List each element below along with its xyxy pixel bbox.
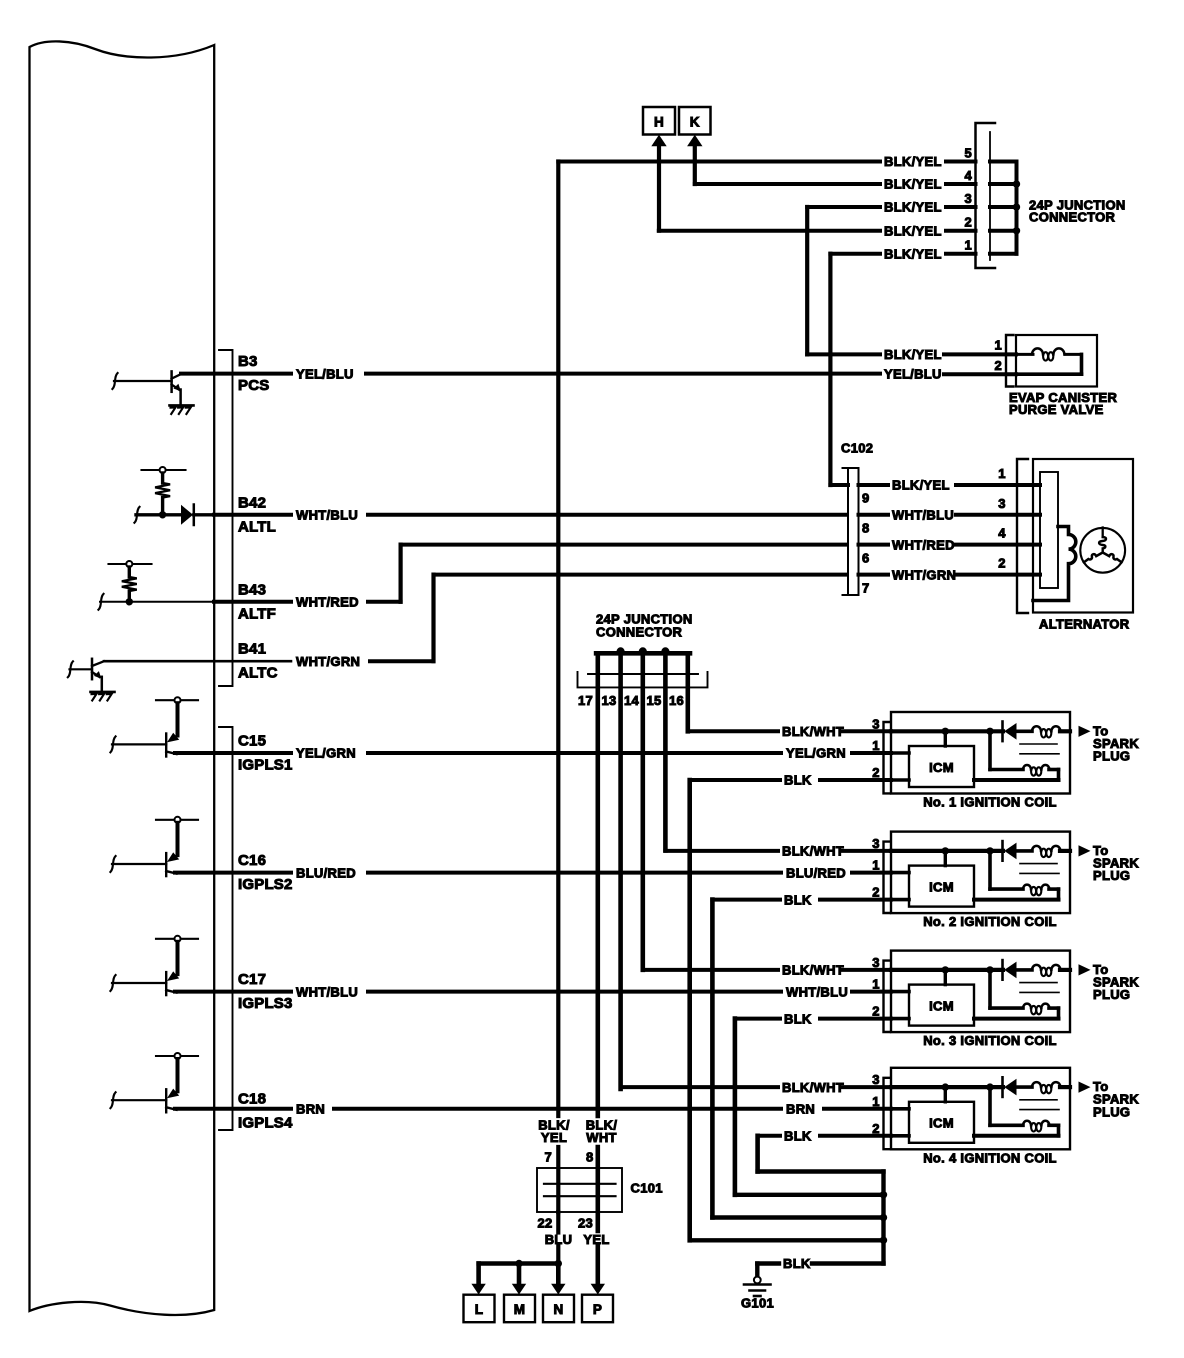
transistor Q5 (IGPLS3 driver, inside ECM) <box>110 971 179 995</box>
wire BLU/RED (C16/IGPLS2 to No.2 coil pin 1) <box>175 865 891 880</box>
terminal box K <box>679 107 711 135</box>
node (coil 2 rail dots) <box>942 847 994 854</box>
wire (rail dot to secondary) <box>990 851 1023 889</box>
connector bracket (EVAP) <box>1006 335 1014 387</box>
pin C15 (IGPLS1) label <box>238 733 293 774</box>
svg-text:ICM: ICM <box>929 1116 954 1131</box>
svg-text:BLK: BLK <box>784 892 812 907</box>
inductor (coil 3 secondary winding) <box>1023 1004 1049 1015</box>
wire (R2 to B43 line) <box>128 591 131 602</box>
svg-text:BLK/YEL: BLK/YEL <box>884 223 942 238</box>
svg-text:PLUG: PLUG <box>1093 987 1130 1002</box>
pin B3 (PCS) label <box>238 353 269 394</box>
wire BLK/YEL (24P junction pin 5) <box>558 146 1016 170</box>
wire WHT/GRN (C102 pin 7 to alternator pin 2) <box>859 556 1041 596</box>
svg-text:C17: C17 <box>238 971 266 988</box>
transistor Q2 (ALTC output driver, inside ECM) <box>68 659 104 692</box>
svg-text:BLK: BLK <box>784 1129 812 1144</box>
svg-text:WHT/RED: WHT/RED <box>296 595 359 610</box>
svg-text:C101: C101 <box>631 1181 663 1196</box>
svg-text:3: 3 <box>872 1072 880 1087</box>
svg-text:15: 15 <box>646 693 661 708</box>
power feed (B43 pull-up rail) <box>109 561 152 577</box>
wire WHT/BLU (C17/IGPLS3 to No.3 coil pin 1) <box>175 984 891 999</box>
svg-text:WHT/RED: WHT/RED <box>892 537 955 552</box>
wire (coil 4 primary rail) <box>891 1085 1003 1089</box>
wire BLK/YEL (C102 pin 9 to alternator pin 1) <box>859 466 1041 506</box>
wire BLK/WHT (junction to No.3 coil pin 3) <box>643 963 891 978</box>
ground G101 <box>741 1277 774 1311</box>
wire labels (C101 top, BLK/YEL & BLK/WHT) <box>538 1118 617 1146</box>
connector bracket (No.3 coil) <box>884 961 891 1032</box>
wire (junction pin 17 drop to C101 pin 8) <box>595 653 600 1283</box>
wire (rail to ICM 3) <box>944 970 947 985</box>
svg-text:CONNECTOR: CONNECTOR <box>596 625 683 640</box>
svg-text:8: 8 <box>586 1150 594 1165</box>
svg-text:IGPLS2: IGPLS2 <box>238 876 293 893</box>
inductor (coil 1 secondary winding) <box>1023 765 1049 776</box>
svg-text:B42: B42 <box>238 494 266 511</box>
svg-text:BLK/YEL: BLK/YEL <box>892 478 950 493</box>
svg-text:ICM: ICM <box>929 760 954 775</box>
connector C101 <box>537 1168 663 1212</box>
No.3 coil pin numbers <box>872 955 880 1019</box>
label To Spark Plug (coil 1) <box>1093 723 1139 763</box>
wire BRN (C18/IGPLS4 to No.4 coil pin 1) <box>175 1102 891 1117</box>
pin C17 (IGPLS3) label <box>238 971 293 1012</box>
svg-text:13: 13 <box>601 693 616 708</box>
svg-text:BLK: BLK <box>784 1011 812 1026</box>
wire (junction pin 5 feed, vertical trunk BLK/YEL) <box>556 162 560 1117</box>
svg-text:2: 2 <box>872 1004 880 1019</box>
svg-text:23: 23 <box>578 1216 593 1231</box>
svg-text:3: 3 <box>964 191 972 206</box>
diode D1 (B42 line) <box>181 505 214 526</box>
node (ground bus dots) <box>880 1191 887 1244</box>
svg-text:3: 3 <box>872 716 880 731</box>
wire BLK (No.2 coil pin 2 to ground bus) <box>712 892 891 1217</box>
svg-text:2: 2 <box>998 556 1006 571</box>
svg-text:WHT: WHT <box>586 1130 617 1145</box>
wire labels (C101 bottom, BLU & YEL) <box>545 1232 610 1247</box>
inductor (coil 2 secondary winding) <box>1023 885 1049 896</box>
wire (primary to spark output) <box>1060 729 1070 733</box>
svg-text:BLU/RED: BLU/RED <box>296 865 356 880</box>
svg-text:4: 4 <box>998 526 1006 541</box>
svg-text:C102: C102 <box>841 441 873 456</box>
wire BLK/YEL (24P junction pin 3) <box>807 191 1016 215</box>
wire WHT/BLU (B42/ALTL to C102 pin 8) <box>214 508 846 523</box>
svg-text:2: 2 <box>872 1121 880 1136</box>
connector C102 <box>841 441 873 596</box>
diode D5 (coil 4) <box>1003 1077 1033 1097</box>
svg-text:BLK/YEL: BLK/YEL <box>884 154 942 169</box>
power feed (IGPLS2 driver supply) <box>156 817 198 855</box>
node (R2/B43 junction) <box>126 598 133 605</box>
label No. 3 IGNITION COIL <box>923 1033 1057 1048</box>
inductor (coil 4 secondary winding) <box>1023 1121 1049 1132</box>
svg-text:YEL: YEL <box>541 1130 567 1145</box>
transformer core (coil 1) <box>1020 744 1059 754</box>
24P junction connector (middle) <box>578 612 708 708</box>
wire (junction pin 14 drop) <box>640 653 645 970</box>
svg-text:4: 4 <box>964 168 972 183</box>
wire (coil 2 pin 2 to ICM) <box>891 898 909 902</box>
svg-text:B43: B43 <box>238 581 266 598</box>
alternator <box>1033 459 1133 632</box>
svg-text:2: 2 <box>994 358 1002 373</box>
arrow (coil 2 to spark plug) <box>1079 845 1091 856</box>
label No. 4 IGNITION COIL <box>923 1150 1057 1165</box>
wire (rail dot to secondary) <box>990 970 1023 1008</box>
svg-text:3: 3 <box>872 955 880 970</box>
No.4 ignition coil box <box>891 1068 1070 1150</box>
No.2 ignition coil box <box>891 832 1070 914</box>
label To Spark Plug (coil 3) <box>1093 962 1139 1002</box>
svg-text:BLK/WHT: BLK/WHT <box>782 963 844 978</box>
terminal box N <box>543 1295 574 1323</box>
connector bracket (No.4 coil) <box>884 1078 891 1149</box>
wire YEL/GRN (C15/IGPLS1 to No.1 coil pin 1) <box>175 746 891 761</box>
inductor (coil 3 primary winding) <box>1032 965 1060 976</box>
svg-text:YEL: YEL <box>583 1232 609 1247</box>
svg-text:1: 1 <box>964 238 972 253</box>
ground (Q1 emitter) <box>170 405 194 414</box>
wire (B43 internal) <box>98 594 214 610</box>
No.2 coil pin numbers <box>872 836 880 900</box>
terminal box H <box>643 107 675 135</box>
terminal box P <box>582 1295 613 1323</box>
wire (arrow drop N) <box>556 1264 561 1285</box>
wire (ground bus vertical) <box>881 1172 885 1264</box>
label To Spark Plug (coil 2) <box>1093 843 1139 883</box>
svg-text:1: 1 <box>994 337 1002 352</box>
terminal box L <box>464 1295 495 1323</box>
wire WHT/BLU (C102 pin 8 to alternator pin 3) <box>859 496 1041 536</box>
connector bracket (No.2 coil) <box>884 842 891 913</box>
svg-text:6: 6 <box>862 550 870 565</box>
svg-text:8: 8 <box>862 521 870 536</box>
svg-text:PURGE VALVE: PURGE VALVE <box>1009 402 1104 417</box>
node (BLU bus dots) <box>515 1260 562 1267</box>
svg-text:1: 1 <box>998 466 1006 481</box>
ECM connector bracket (C15-C18 pins) <box>219 727 233 1130</box>
wire BLK/WHT (junction to No.2 coil pin 3) <box>665 844 891 859</box>
wire (secondary to ICM return) <box>974 1125 1059 1136</box>
wire WHT/RED (C102 pin 6 to alternator pin 4) <box>859 526 1041 566</box>
svg-text:ALTL: ALTL <box>238 518 276 535</box>
svg-text:2: 2 <box>872 765 880 780</box>
svg-text:L: L <box>475 1302 484 1317</box>
wire (R1 to B42 line) <box>161 498 164 515</box>
svg-text:BLK/WHT: BLK/WHT <box>782 724 844 739</box>
svg-text:IGPLS4: IGPLS4 <box>238 1114 293 1131</box>
svg-text:5: 5 <box>964 146 972 161</box>
svg-text:C15: C15 <box>238 733 266 750</box>
svg-text:BLK/YEL: BLK/YEL <box>884 347 942 362</box>
svg-text:WHT/BLU: WHT/BLU <box>296 984 358 999</box>
svg-text:2: 2 <box>964 215 972 230</box>
svg-text:BLK/YEL: BLK/YEL <box>884 200 942 215</box>
svg-text:1: 1 <box>872 977 880 992</box>
transistor Q3 (IGPLS1 driver, inside ECM) <box>110 733 179 757</box>
wire (rail to ICM 1) <box>944 731 947 746</box>
node (junction bus dots) <box>617 647 670 655</box>
wire (primary to spark output) <box>1060 849 1070 853</box>
node (coil 3 rail dots) <box>942 966 994 973</box>
wire (junction pin 13 drop) <box>618 653 623 1089</box>
wire (rail to ICM 4) <box>944 1087 947 1102</box>
svg-text:17: 17 <box>578 693 593 708</box>
arrow (coil 4 to spark plug) <box>1079 1082 1091 1093</box>
svg-text:BLK/YEL: BLK/YEL <box>884 246 942 261</box>
wire BLK (bus to G101) <box>757 1256 883 1276</box>
wire (primary to spark output) <box>1060 1085 1070 1089</box>
wire BLK/WHT (junction to No.4 coil pin 3) <box>621 1080 891 1095</box>
inductor (coil 4 primary winding) <box>1032 1082 1060 1093</box>
wire (junction pin 16 drop) <box>685 653 690 731</box>
svg-text:ALTERNATOR: ALTERNATOR <box>1039 617 1130 632</box>
svg-text:14: 14 <box>624 693 640 708</box>
svg-text:No. 1 IGNITION COIL: No. 1 IGNITION COIL <box>923 795 1057 810</box>
inductor (coil 1 primary winding) <box>1032 726 1060 737</box>
wire (primary to spark output) <box>1060 968 1070 972</box>
arrow (into L) <box>471 1284 485 1295</box>
svg-text:BLK: BLK <box>784 773 812 788</box>
No.3 ignition coil box <box>891 951 1070 1033</box>
diode D3 (coil 2) <box>1003 841 1033 861</box>
resistor R1 (B42 pull-up) <box>155 483 170 498</box>
transformer core (coil 3) <box>1020 983 1059 993</box>
resistor R2 (B43 pull-up) <box>122 577 137 591</box>
svg-text:ALTC: ALTC <box>238 665 278 682</box>
wire (pin 3 drop to EVAP pin 1) <box>805 207 809 354</box>
wire (secondary to ICM return) <box>974 770 1059 781</box>
svg-text:B41: B41 <box>238 641 266 658</box>
wire BLK/YEL (to EVAP pin 1) <box>807 337 1016 373</box>
pin numbers (C101 pins 7, 8) <box>544 1150 593 1165</box>
label No. 2 IGNITION COIL <box>923 914 1057 929</box>
pin B42 (ALTL) label <box>238 494 276 535</box>
wire (coil 1 pin 2 to ICM) <box>891 778 909 782</box>
svg-text:BLK/WHT: BLK/WHT <box>782 844 844 859</box>
svg-text:BRN: BRN <box>296 1102 325 1117</box>
svg-text:WHT/GRN: WHT/GRN <box>296 654 360 669</box>
svg-text:2: 2 <box>872 885 880 900</box>
diode D4 (coil 3) <box>1003 960 1033 980</box>
node (coil 4 rail dots) <box>942 1083 994 1090</box>
arrow (into N) <box>551 1284 565 1295</box>
ICM (igniter) No.2 <box>909 866 974 907</box>
arrow (into K) <box>687 135 702 184</box>
svg-text:PLUG: PLUG <box>1093 1104 1130 1119</box>
wire BLK/YEL (24P junction pin 1) <box>830 238 1016 262</box>
wire (BLU distribution bus) <box>479 1264 559 1285</box>
svg-text:IGPLS1: IGPLS1 <box>238 757 293 774</box>
svg-text:3: 3 <box>872 836 880 851</box>
wire (coil 3 primary rail) <box>891 968 1003 972</box>
ICM (igniter) No.3 <box>909 985 974 1026</box>
svg-text:1: 1 <box>872 858 880 873</box>
svg-text:WHT/GRN: WHT/GRN <box>892 567 956 582</box>
power feed (IGPLS1 driver supply) <box>156 697 198 735</box>
svg-text:BLU/RED: BLU/RED <box>786 865 846 880</box>
svg-text:BRN: BRN <box>786 1102 815 1117</box>
wire (arrow drop M) <box>517 1264 522 1285</box>
ground (Q2 emitter) <box>91 692 115 701</box>
svg-text:IGPLS3: IGPLS3 <box>238 995 293 1012</box>
svg-text:7: 7 <box>862 580 870 595</box>
wire WHT/RED (B43/ALTF to C102 pin 6) <box>214 545 846 610</box>
wire BLK/YEL (24P junction pin 2) <box>659 215 1017 239</box>
24P junction connector (top right) <box>976 123 1126 268</box>
wire (C102 pin 9 entry) <box>830 483 848 487</box>
svg-text:BLK: BLK <box>783 1256 811 1271</box>
wire BLK (No.3 coil pin 2 to ground bus) <box>735 1011 891 1195</box>
wire (trunk through C101 to pin 22) <box>556 1147 560 1264</box>
svg-text:M: M <box>514 1302 526 1317</box>
svg-text:7: 7 <box>544 1150 552 1165</box>
svg-text:ICM: ICM <box>929 879 954 894</box>
svg-text:PCS: PCS <box>238 377 269 394</box>
ECM/PCM module block (left, torn edges) <box>30 41 215 1315</box>
wire (coil 1 primary rail) <box>891 729 1003 733</box>
power feed (B42 pull-up rail) <box>142 467 186 483</box>
pin B41 (ALTC) label <box>238 641 278 682</box>
svg-text:ICM: ICM <box>929 998 954 1013</box>
arrow (coil 1 to spark plug) <box>1079 726 1091 737</box>
svg-text:No. 2 IGNITION COIL: No. 2 IGNITION COIL <box>923 914 1057 929</box>
wire (rail dot to secondary) <box>990 1087 1023 1125</box>
label No. 1 IGNITION COIL <box>923 795 1057 810</box>
svg-text:CONNECTOR: CONNECTOR <box>1029 210 1116 225</box>
svg-text:PLUG: PLUG <box>1093 749 1130 764</box>
wire (coil 1 pin 1 to ICM) <box>891 751 909 755</box>
wire BLK/YEL (24P junction pin 4) <box>695 168 1017 192</box>
wire (B42 internal) <box>134 507 182 523</box>
wire (secondary to ICM return) <box>974 1008 1059 1019</box>
svg-text:PLUG: PLUG <box>1093 868 1130 883</box>
pin B43 (ALTF) label <box>238 581 276 622</box>
svg-text:G101: G101 <box>741 1296 774 1311</box>
power feed (IGPLS4 driver supply) <box>156 1053 198 1091</box>
wire (coil 2 primary rail) <box>891 849 1003 853</box>
wire WHT/GRN (B41/ALTC to C102 pin 7) <box>104 575 846 669</box>
svg-text:BLK/WHT: BLK/WHT <box>782 1080 844 1095</box>
svg-text:22: 22 <box>537 1216 552 1231</box>
svg-text:WHT/BLU: WHT/BLU <box>786 984 848 999</box>
svg-text:YEL/GRN: YEL/GRN <box>786 746 846 761</box>
node (coil 1 rail dots) <box>942 728 994 735</box>
svg-text:WHT/BLU: WHT/BLU <box>892 508 954 523</box>
label To Spark Plug (coil 4) <box>1093 1079 1139 1119</box>
svg-text:YEL/BLU: YEL/BLU <box>884 366 942 381</box>
svg-text:1: 1 <box>872 1094 880 1109</box>
wire YEL/BLU (B3/PCS to EVAP pin 2) <box>181 366 1016 381</box>
wire BLK/WHT (junction to No.1 coil pin 3) <box>688 724 891 739</box>
svg-text:BLU: BLU <box>545 1232 573 1247</box>
svg-text:H: H <box>654 115 664 130</box>
power feed (IGPLS3 driver supply) <box>156 936 198 974</box>
pin C18 (IGPLS4) label <box>238 1090 293 1131</box>
wire (coil 2 pin 1 to ICM) <box>891 871 909 875</box>
transformer core (coil 4) <box>1020 1100 1059 1110</box>
ICM (igniter) No.1 <box>909 746 974 787</box>
No.4 coil pin numbers <box>872 1072 880 1136</box>
transistor Q6 (IGPLS4 driver, inside ECM) <box>110 1089 179 1113</box>
ECM connector bracket (B3-B41 pins) <box>219 350 233 686</box>
wire BLK (No.4 coil pin 2 to ground bus) <box>758 1129 891 1172</box>
svg-text:YEL/BLU: YEL/BLU <box>296 366 354 381</box>
svg-text:C18: C18 <box>238 1090 266 1107</box>
ICM (igniter) No.4 <box>909 1102 974 1143</box>
connector bracket (No.1 coil) <box>884 722 891 793</box>
node (R1/B42 junction) <box>159 511 166 518</box>
diode D2 (coil 1) <box>1003 722 1033 742</box>
svg-text:P: P <box>593 1302 602 1317</box>
arrow (into P) <box>591 1284 605 1295</box>
svg-text:1: 1 <box>872 738 880 753</box>
svg-text:ALTF: ALTF <box>238 605 276 622</box>
arrow (coil 3 to spark plug) <box>1079 964 1091 975</box>
node (junction pins 4-3-2 bus) <box>1013 180 1020 234</box>
wire (coil 3 pin 1 to ICM) <box>891 990 909 994</box>
pin C16 (IGPLS2) label <box>238 852 293 893</box>
inductor (coil 2 primary winding) <box>1032 846 1060 857</box>
wire BLK (No.1 coil pin 2 to ground bus) <box>690 773 891 1241</box>
svg-text:9: 9 <box>862 491 870 506</box>
svg-text:K: K <box>690 115 700 130</box>
svg-text:No. 4 IGNITION COIL: No. 4 IGNITION COIL <box>923 1150 1057 1165</box>
wire (junction pin 15 drop) <box>663 653 668 850</box>
svg-text:C16: C16 <box>238 852 266 869</box>
wire (coil 4 pin 1 to ICM) <box>891 1107 909 1111</box>
pin numbers (C101 pins 22, 23) <box>537 1216 593 1231</box>
wire (pin 1 drop to C102 pin 9) <box>828 254 832 485</box>
wire (secondary to ICM return) <box>974 889 1059 900</box>
svg-text:16: 16 <box>669 693 684 708</box>
No.1 coil pin numbers <box>872 716 880 780</box>
wire (coil 3 pin 2 to ICM) <box>891 1017 909 1021</box>
transistor Q1 (PCS output driver, inside ECM) <box>112 371 181 405</box>
connector bracket (alternator) <box>1017 459 1028 613</box>
svg-text:3: 3 <box>998 496 1006 511</box>
svg-text:No. 3 IGNITION COIL: No. 3 IGNITION COIL <box>923 1033 1057 1048</box>
terminal box M <box>504 1295 535 1323</box>
transformer core (coil 2) <box>1020 864 1059 874</box>
No.1 ignition coil box <box>891 712 1070 794</box>
arrow (into M) <box>512 1284 526 1295</box>
wire (coil 4 pin 2 to ICM) <box>891 1134 909 1138</box>
EVAP canister purge valve (solenoid) <box>1009 335 1117 417</box>
svg-text:WHT/BLU: WHT/BLU <box>296 508 358 523</box>
svg-text:N: N <box>553 1302 563 1317</box>
svg-text:B3: B3 <box>238 353 258 370</box>
arrow (into H) <box>651 135 666 231</box>
transistor Q4 (IGPLS2 driver, inside ECM) <box>110 852 179 876</box>
wire (rail to ICM 2) <box>944 851 947 866</box>
wire (rail dot to secondary) <box>990 731 1023 769</box>
svg-text:BLK/YEL: BLK/YEL <box>884 177 942 192</box>
svg-text:YEL/GRN: YEL/GRN <box>296 746 356 761</box>
